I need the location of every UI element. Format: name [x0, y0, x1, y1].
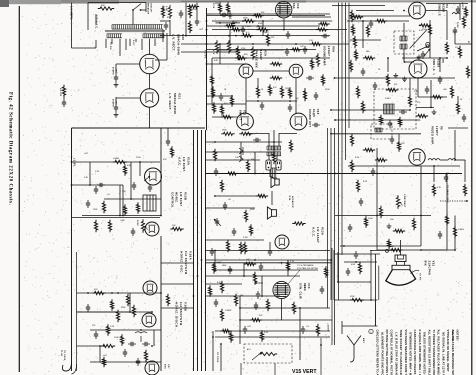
junction — [281, 262, 283, 264]
wire — [139, 162, 141, 176]
coil chain — [272, 152, 275, 164]
svg-text:4.7K: 4.7K — [290, 261, 295, 263]
resistor — [239, 242, 242, 254]
resistor — [243, 242, 246, 254]
resistor 10K — [170, 227, 183, 230]
svg-text:ALL RESISTORS 1/2 WATT UNLESS: ALL RESISTORS 1/2 WATT UNLESS — [427, 330, 431, 375]
ground — [388, 224, 390, 227]
wire — [161, 262, 194, 264]
phase det diode — [239, 148, 243, 154]
resistor — [246, 160, 249, 172]
wire — [350, 39, 381, 41]
svg-text:4.5MC: 4.5MC — [385, 98, 391, 100]
svg-text:3RD I.F.: 3RD I.F. — [432, 59, 436, 72]
svg-text:VOLTAGES MEASURED FROM TUBE: VOLTAGES MEASURED FROM TUBE — [404, 330, 408, 375]
svg-text:100K: 100K — [216, 262, 221, 264]
scan band segment — [181, 1, 306, 3]
wire — [446, 11, 448, 41]
wire bus — [197, 130, 199, 371]
resistor — [144, 350, 147, 362]
svg-text:HORIZ. OSC.: HORIZ. OSC. — [180, 251, 184, 274]
resistor — [260, 330, 263, 341]
annotation leader — [288, 270, 300, 284]
wire — [71, 3, 73, 48]
svg-text:T1 POWER TRANSFORMER PRIMARY: T1 POWER TRANSFORMER PRIMARY — [432, 330, 436, 375]
capacitor — [257, 291, 259, 294]
resistor — [218, 2, 221, 13]
capacitor — [242, 26, 244, 29]
scan corner block — [0, 0, 9, 7]
wire — [154, 39, 156, 46]
capacitor — [439, 76, 441, 79]
resistor — [230, 28, 241, 31]
wire — [268, 133, 270, 146]
svg-text:2.2M: 2.2M — [243, 237, 248, 239]
filter capacitor 40MFD — [115, 104, 117, 107]
resistor — [458, 46, 461, 58]
svg-text:270K: 270K — [243, 18, 248, 20]
svg-text:V5: V5 — [441, 59, 445, 63]
resistor — [366, 25, 369, 37]
capacitor — [463, 114, 465, 117]
resistor — [324, 266, 327, 277]
wire bus — [334, 128, 336, 345]
wire — [403, 23, 405, 36]
wire — [335, 215, 431, 217]
wire — [95, 14, 97, 25]
speaker plug P1 — [266, 160, 271, 170]
resistor — [270, 62, 282, 65]
capacitor — [255, 302, 257, 305]
svg-text:V13: V13 — [307, 283, 311, 289]
capacitor — [315, 92, 317, 95]
resistor — [220, 309, 223, 321]
junction — [117, 292, 119, 294]
wire — [206, 295, 281, 297]
capacitor — [289, 104, 291, 107]
capacitor — [355, 251, 357, 254]
capacitor — [63, 99, 65, 102]
svg-text:ALL VOLTAGES PLUS OR MINUS 10%: ALL VOLTAGES PLUS OR MINUS 10% — [437, 330, 441, 375]
svg-text:5U4GA-5U46: 5U4GA-5U46 — [173, 93, 177, 114]
horiz hold pot — [141, 219, 144, 232]
capacitor — [224, 202, 226, 205]
stab coil — [135, 332, 147, 333]
resistor — [351, 24, 354, 35]
resistor — [358, 262, 361, 274]
svg-text:+400: +400 — [115, 99, 118, 105]
wire — [212, 57, 330, 59]
wire — [342, 325, 378, 327]
wire bus +270V — [206, 8, 208, 130]
svg-text:ANT.: ANT. — [362, 338, 365, 344]
wire — [95, 40, 97, 48]
wire — [206, 262, 333, 264]
wire — [119, 39, 121, 56]
svg-text:6 98: 6 98 — [419, 30, 423, 32]
junction — [212, 95, 214, 97]
svg-text:500K: 500K — [136, 220, 138, 226]
capacitor — [142, 343, 145, 345]
afc diode arrow — [144, 176, 150, 181]
triode V16A horiz osc — [143, 281, 157, 295]
resistor — [431, 95, 443, 98]
wire — [215, 330, 330, 332]
wire — [334, 253, 380, 255]
svg-text:CONTROL: CONTROL — [170, 192, 174, 208]
wire — [160, 236, 162, 371]
transformer T1 core — [105, 30, 165, 32]
wire — [82, 215, 161, 217]
svg-text:1.2K: 1.2K — [95, 171, 100, 173]
wire — [131, 198, 161, 200]
svg-text:12DT7: 12DT7 — [435, 126, 439, 136]
resistor — [432, 184, 435, 196]
crt neck — [395, 255, 406, 262]
wire — [274, 363, 276, 375]
capacitor — [180, 10, 182, 13]
capacitor — [87, 304, 89, 307]
wire bus — [201, 130, 203, 371]
wire — [72, 127, 206, 129]
wire — [207, 49, 317, 51]
svg-text:L.V. B PLUS 270V AT 250MA MAX: L.V. B PLUS 270V AT 250MA MAX — [394, 332, 398, 375]
resistor 1 MEG — [113, 160, 127, 163]
junction — [343, 245, 345, 247]
wire bus — [330, 128, 332, 300]
resistor — [241, 34, 253, 37]
svg-text:TO BASE GRID: TO BASE GRID — [446, 185, 449, 203]
wire — [219, 44, 221, 64]
resistor — [428, 24, 431, 36]
svg-text:100K: 100K — [114, 337, 119, 339]
svg-text:V15B: V15B — [184, 192, 188, 200]
wire — [206, 239, 265, 241]
wire — [77, 311, 153, 313]
svg-text:470K: 470K — [258, 23, 263, 25]
resistor — [215, 40, 218, 53]
capacitor — [360, 198, 362, 201]
svg-text:SO-205: SO-205 — [59, 88, 61, 96]
wire — [125, 39, 127, 50]
svg-text:120K: 120K — [93, 209, 98, 211]
wire — [240, 319, 332, 321]
wire — [299, 308, 301, 360]
ground — [395, 73, 397, 76]
capacitor — [286, 48, 288, 51]
wire — [181, 43, 349, 45]
svg-text:1/2 6CN7: 1/2 6CN7 — [182, 157, 186, 171]
ground — [115, 112, 117, 115]
wire — [376, 148, 378, 250]
svg-text:V17: V17 — [167, 364, 169, 369]
wire — [332, 5, 385, 7]
resistor — [316, 53, 319, 66]
capacitor — [391, 136, 393, 139]
wire — [337, 252, 339, 282]
output tube V10 sound out — [290, 113, 307, 130]
resistor — [356, 86, 359, 98]
resistor — [235, 56, 247, 59]
wire — [167, 128, 169, 138]
wire — [119, 185, 121, 216]
yoke plug curl — [62, 362, 71, 371]
scan band segment — [306, 1, 476, 2]
resistor — [379, 115, 382, 125]
capacitor — [229, 11, 231, 14]
resistor — [229, 331, 232, 342]
svg-text:1 MEG: 1 MEG — [113, 158, 120, 160]
svg-text:40MFD: 40MFD — [111, 67, 114, 75]
svg-text:ALIGNMENT POINTS AND PROCED: ALIGNMENT POINTS AND PROCED — [380, 332, 384, 375]
wire — [349, 15, 410, 17]
capacitor — [302, 326, 304, 329]
wire — [273, 130, 275, 152]
junction — [337, 281, 339, 283]
wire — [254, 152, 256, 174]
resistor — [393, 229, 405, 232]
svg-text:+135V.: +135V. — [327, 323, 329, 332]
svg-text:1/2 6CN7: 1/2 6CN7 — [179, 192, 183, 206]
resistor 470K — [350, 298, 364, 301]
svg-text:330K: 330K — [250, 209, 255, 211]
svg-text:470K: 470K — [350, 296, 355, 298]
wire — [206, 173, 349, 175]
wire — [206, 103, 246, 105]
svg-text:TO PIX: TO PIX — [419, 273, 421, 281]
svg-text:1 MEG: 1 MEG — [256, 26, 263, 28]
wire — [417, 78, 419, 97]
wire — [278, 133, 280, 146]
wire — [304, 88, 306, 101]
svg-text:PIX: PIX — [424, 261, 428, 266]
resistor — [220, 329, 231, 332]
wire — [90, 329, 161, 331]
capacitor — [149, 184, 151, 187]
svg-text:470K: 470K — [121, 307, 126, 309]
wire — [155, 59, 167, 61]
wire — [347, 20, 409, 22]
rectifier tube V21 — [140, 89, 158, 107]
svg-text:SOUND OUT: SOUND OUT — [308, 109, 312, 127]
crt yoke — [392, 265, 410, 269]
interlock switch — [133, 4, 141, 10]
capacitor — [133, 182, 135, 185]
resistor — [464, 6, 467, 17]
capacitor — [95, 331, 97, 334]
crt gun — [398, 255, 404, 259]
svg-text:12AX7: 12AX7 — [327, 46, 331, 56]
capacitor — [244, 326, 246, 329]
wire — [420, 166, 422, 247]
transformer T1 secondary winding A — [107, 33, 122, 35]
tube V19 vert out — [276, 2, 292, 18]
capacitor — [321, 35, 324, 37]
capacitor — [233, 228, 235, 231]
svg-text:V15A: V15A — [187, 157, 191, 165]
wire — [246, 100, 297, 102]
resistor — [239, 132, 252, 135]
svg-text:UNLESS OTHERWISE NOTED HEREIN: UNLESS OTHERWISE NOTED HEREIN — [423, 332, 427, 375]
resistor — [290, 48, 301, 51]
svg-text:SYNC TAKE OFF SETTING: SYNC TAKE OFF SETTING — [297, 267, 319, 270]
capacitor — [306, 77, 309, 79]
svg-text:A.F.C.: A.F.C. — [178, 157, 182, 167]
wire — [72, 184, 124, 186]
wire — [111, 39, 113, 44]
wire — [269, 170, 271, 177]
IF transformer can — [394, 31, 414, 54]
resistor — [349, 60, 352, 72]
capacitor — [232, 21, 234, 24]
resistor — [220, 281, 223, 293]
svg-text:.047: .047 — [300, 46, 304, 48]
resistor — [266, 299, 269, 311]
svg-text:1 MEG: 1 MEG — [225, 310, 232, 312]
wire bus — [205, 130, 207, 371]
svg-text:3.9K: 3.9K — [355, 157, 360, 159]
peaking coil — [448, 159, 456, 161]
output transformer T2 secondary — [267, 151, 281, 153]
pentode V5 3rd IF — [409, 60, 427, 78]
transformer T1 primary winding — [112, 24, 163, 26]
resistor — [268, 84, 271, 95]
resistor — [253, 272, 256, 284]
junction — [257, 100, 259, 102]
svg-text:+270V.: +270V. — [203, 50, 205, 59]
wire — [416, 106, 434, 108]
wire — [207, 15, 326, 17]
wire bus — [193, 130, 195, 371]
junction — [376, 173, 378, 175]
osc transformer — [143, 195, 156, 211]
wire — [454, 216, 456, 251]
wire — [212, 116, 238, 118]
svg-text:NO SIGNAL IN. LINE AT 117V AC: NO SIGNAL IN. LINE AT 117V AC — [441, 332, 445, 375]
wire — [295, 78, 297, 113]
resistor — [242, 19, 255, 22]
resistor — [123, 204, 126, 215]
triode V12A AGC — [275, 235, 289, 249]
wire — [433, 166, 435, 182]
wire — [99, 346, 101, 362]
wire — [279, 133, 297, 135]
svg-text:.53M: .53M — [120, 220, 125, 222]
junction — [206, 20, 208, 22]
svg-text:V6: V6 — [440, 126, 444, 130]
wire — [215, 336, 330, 338]
svg-text:.02: .02 — [296, 98, 299, 100]
capacitor — [269, 248, 271, 251]
capacitor — [372, 168, 374, 171]
svg-text:270: 270 — [417, 102, 420, 104]
svg-text:100K: 100K — [456, 22, 458, 28]
wire — [344, 261, 377, 263]
wire — [135, 39, 137, 42]
resistor — [227, 40, 230, 53]
wire — [153, 330, 155, 346]
resistor 400 ohm — [98, 7, 114, 10]
svg-text:6.8K: 6.8K — [127, 165, 132, 167]
speaker SP2 — [272, 210, 277, 217]
wire — [161, 283, 194, 285]
svg-text:+400: +400 — [115, 67, 118, 73]
wire — [149, 107, 151, 128]
svg-text:47K: 47K — [212, 50, 215, 55]
wire — [72, 161, 161, 163]
wire — [149, 39, 151, 54]
resistor horizontal — [101, 344, 115, 347]
wire — [271, 191, 273, 205]
wire — [246, 133, 269, 135]
resistor — [375, 158, 387, 161]
wire — [105, 39, 107, 48]
wire — [240, 307, 330, 309]
svg-text:ADJ.: ADJ. — [247, 348, 251, 351]
svg-text:6.8K: 6.8K — [351, 264, 356, 266]
resistor — [226, 240, 229, 252]
svg-text:+135V.: +135V. — [72, 158, 74, 167]
notes heading underline — [452, 330, 454, 342]
svg-text:P.M.: P.M. — [288, 196, 290, 201]
svg-text:5U4GA-5U46: 5U4GA-5U46 — [176, 34, 180, 55]
svg-text:V2A: V2A — [264, 50, 268, 56]
resistor — [102, 201, 105, 213]
peaking coil — [428, 159, 440, 161]
svg-text:6AQ5: 6AQ5 — [312, 109, 316, 117]
capacitor — [220, 93, 222, 96]
svg-text:TO YOKE: TO YOKE — [63, 350, 65, 361]
pentode V4 2nd IF — [409, 2, 426, 19]
junction — [139, 161, 141, 163]
svg-text:CAPACITANCE IN MFD UNLESS MMF: CAPACITANCE IN MFD UNLESS MMF — [413, 330, 417, 375]
to base grid arrow — [440, 200, 464, 202]
svg-text:8.2K: 8.2K — [264, 332, 269, 334]
capacitor — [165, 22, 167, 25]
wire — [206, 275, 301, 277]
svg-text:TO YOKE: TO YOKE — [216, 352, 218, 363]
resistor — [416, 114, 428, 117]
wire — [239, 296, 241, 344]
junction — [214, 250, 216, 252]
filter capacitor 40MFD — [115, 74, 117, 77]
wire pair — [378, 266, 380, 300]
capacitor — [370, 20, 372, 23]
resistor — [316, 324, 319, 336]
wire diagonal — [410, 30, 427, 49]
resistor — [350, 160, 353, 172]
wire — [207, 13, 213, 15]
svg-text:220: 220 — [394, 84, 397, 86]
resistor — [375, 19, 387, 22]
resistor — [379, 206, 382, 218]
resistor — [250, 318, 262, 321]
ground — [418, 55, 420, 58]
junction — [185, 35, 187, 37]
resistor — [456, 102, 459, 114]
capacitor — [362, 68, 364, 71]
cluster can — [371, 124, 392, 139]
svg-text:0.1: 0.1 — [246, 32, 249, 34]
capacitor — [211, 248, 213, 251]
svg-text:BREAKER: BREAKER — [147, 3, 150, 15]
resistor — [120, 334, 123, 345]
junction — [71, 161, 73, 163]
capacitor — [220, 14, 223, 16]
wire — [206, 259, 333, 261]
svg-text:HORIZ.: HORIZ. — [175, 192, 179, 203]
wire — [446, 174, 448, 251]
